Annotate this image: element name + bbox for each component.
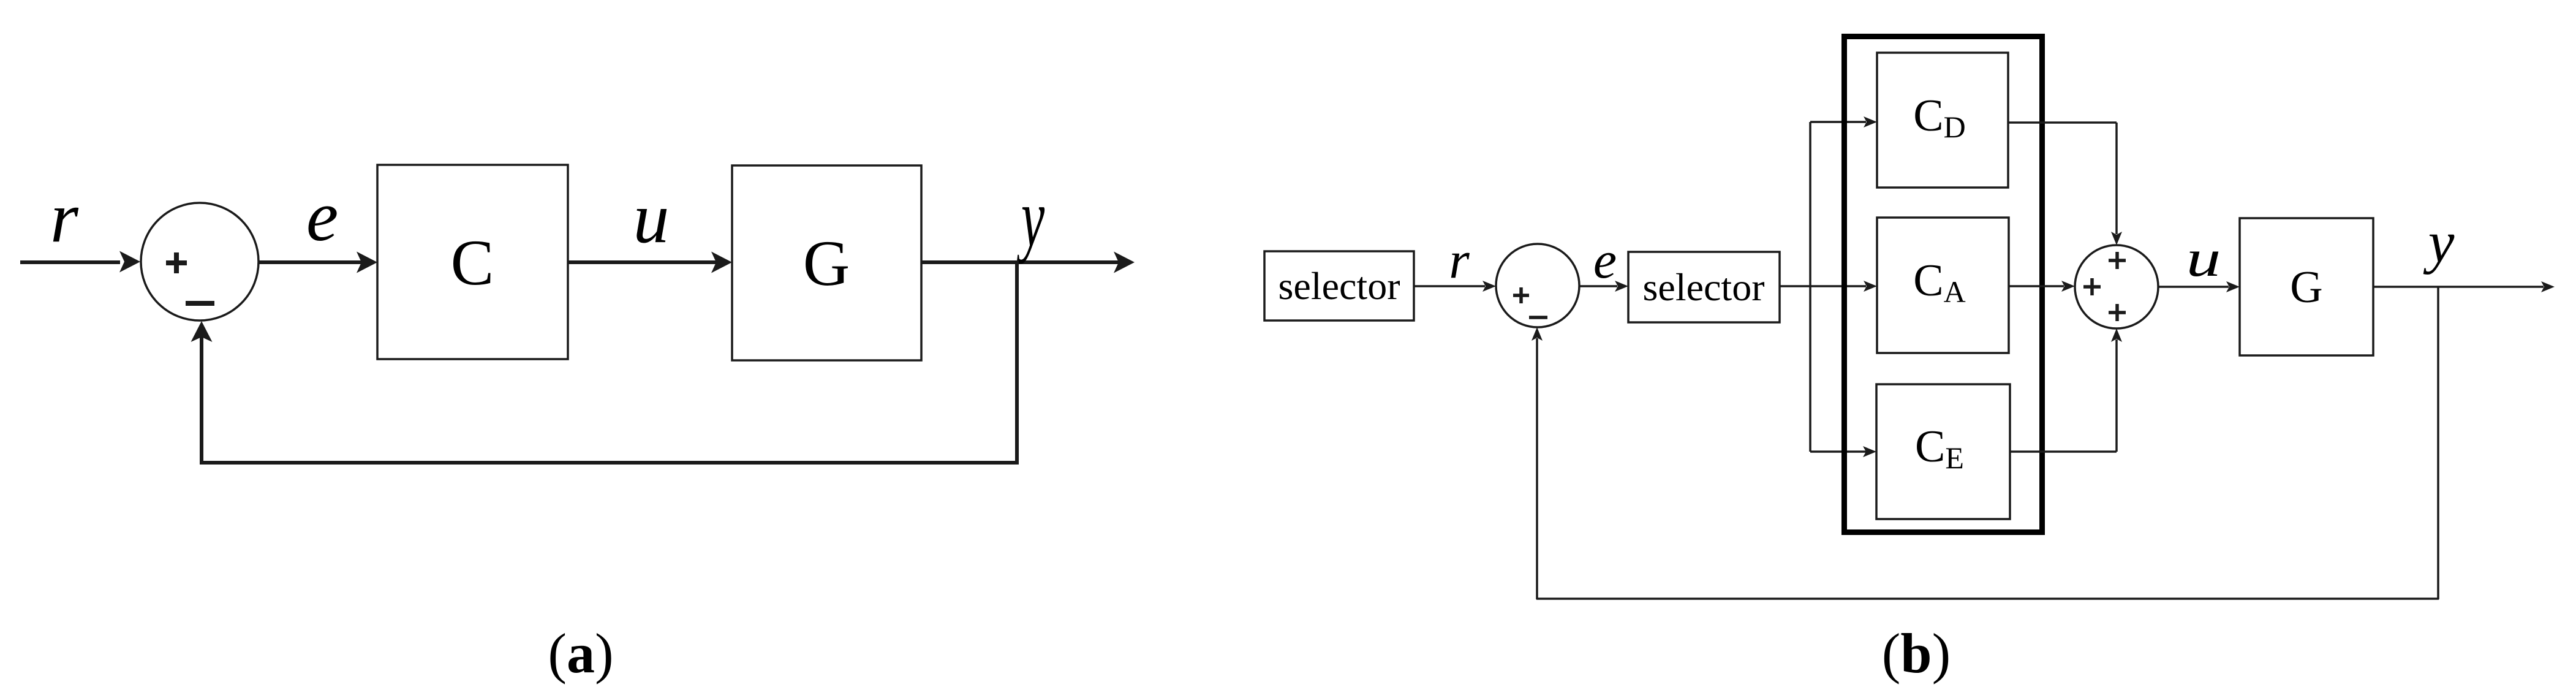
wire u: block C to block G <box>568 260 719 264</box>
wire feedback vertical down from y tap (b) <box>2437 287 2439 599</box>
arrowhead up into S1a minus input <box>191 321 213 342</box>
arrowhead into C_D <box>1864 116 1877 127</box>
minus sign in S1b <box>1529 316 1547 319</box>
summing junction S1a <box>141 203 259 321</box>
arrowhead into block C <box>357 252 377 273</box>
plus sign bottom in S2b <box>2109 304 2126 321</box>
arrowhead into block G <box>711 252 732 273</box>
svg-text:C: C <box>451 227 494 298</box>
wire r: selector1 to S1b <box>1414 285 1485 287</box>
plus sign left in S2b <box>2083 278 2101 295</box>
arrowhead into C_A <box>1864 281 1877 292</box>
wire C_D output horizontal <box>2008 121 2117 124</box>
wire y output (b) <box>2373 286 2544 288</box>
thick controller bank box <box>1845 37 2042 533</box>
minus sign in S1a <box>186 301 214 306</box>
arrowhead output y (b) <box>2541 281 2555 292</box>
plus sign top in S2b <box>2109 252 2126 269</box>
svg-text:selector: selector <box>1643 265 1765 309</box>
svg-text:y: y <box>1016 171 1044 264</box>
svg-text:e: e <box>306 176 338 256</box>
wire C_E output vertical up to S2b <box>2115 340 2118 452</box>
arrowhead into S2b left <box>2061 281 2075 292</box>
wire e: S1b to selector2 <box>1579 285 1617 287</box>
wire branch to C_E <box>1810 450 1866 453</box>
wire feedback bottom horizontal <box>200 461 1019 465</box>
svg-text:r: r <box>1449 230 1470 289</box>
arrowhead into C_E <box>1863 446 1876 457</box>
svg-text:(a): (a) <box>548 622 613 685</box>
svg-text:G: G <box>2290 262 2322 313</box>
wire C_E output horizontal <box>2010 450 2117 453</box>
wire C_D output vertical down to S2b <box>2115 123 2118 234</box>
svg-text:e: e <box>1593 230 1617 289</box>
wire C_A output <box>2009 285 2064 287</box>
arrowhead into summing junction S1a <box>119 251 140 273</box>
summing junction S1b <box>1496 244 1579 327</box>
wire feedback vertical up to S1a <box>200 335 203 465</box>
wire selector2 to C_A branch <box>1780 285 1866 287</box>
block G <box>732 165 921 360</box>
wire y output <box>921 260 1121 264</box>
wire r input <box>20 260 120 264</box>
arrowhead up into S1b bottom <box>1532 327 1543 341</box>
plus sign in S1b <box>1513 287 1529 303</box>
wire feedback vertical down from y tap <box>1015 260 1019 465</box>
arrowhead output y <box>1114 252 1135 273</box>
svg-text:r: r <box>50 177 79 257</box>
wire branch vertical <box>1809 122 1811 452</box>
arrowhead into selector2 <box>1615 281 1628 292</box>
block C_D <box>1877 53 2008 188</box>
arrowhead down into S2b top <box>2111 232 2122 245</box>
arrowhead up into S2b bottom <box>2111 328 2122 342</box>
block selector 2 <box>1628 252 1780 322</box>
svg-text:u: u <box>2186 229 2221 287</box>
block selector 1 <box>1264 251 1414 321</box>
block C_E <box>1876 384 2010 519</box>
block C <box>377 165 568 359</box>
plus sign in S1a <box>166 252 187 273</box>
wire branch to C_D <box>1810 121 1866 123</box>
svg-text:selector: selector <box>1279 264 1400 308</box>
block G (b) <box>2240 218 2373 355</box>
block C_A <box>1877 218 2009 353</box>
wire u: S2b to G <box>2158 286 2229 288</box>
summing junction S2b <box>2075 245 2158 328</box>
svg-text:(b): (b) <box>1882 622 1951 685</box>
svg-text:u: u <box>633 178 670 258</box>
svg-text:G: G <box>803 227 850 299</box>
wire feedback bottom horizontal (b) <box>1536 597 2439 600</box>
arrowhead into G (b) <box>2226 281 2240 292</box>
arrowhead into S1b <box>1483 281 1496 292</box>
wire e: S1a to block C <box>259 260 364 264</box>
wire feedback vertical up to S1b (b) <box>1536 338 1538 599</box>
